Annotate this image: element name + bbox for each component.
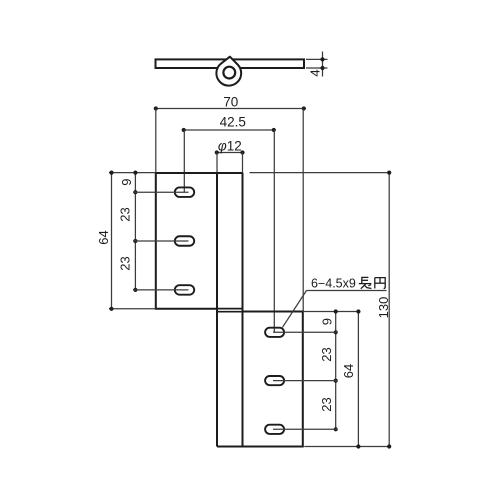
svg-text:23: 23	[319, 397, 334, 411]
right top extension line of lower leaf	[303, 311, 361, 313]
dimension 64 right: dimension line	[357, 312, 359, 447]
hinge barrel right edge	[242, 173, 244, 447]
top right extension line for 130	[250, 172, 392, 174]
slot leader lower 2	[273, 380, 338, 382]
svg-text:23: 23	[118, 207, 133, 221]
svg-text:23: 23	[319, 347, 334, 361]
upper slot 1	[175, 187, 194, 197]
lower slot 2	[265, 376, 284, 385]
slot leader lower 1	[273, 331, 338, 333]
svg-text:130: 130	[376, 297, 391, 319]
lower slot 1	[265, 328, 284, 337]
dimension 42.5: right extension into lower slot	[273, 130, 275, 332]
lower slot 3	[265, 425, 284, 434]
dimension 4: extension lines	[306, 58, 328, 60]
svg-text:70: 70	[223, 94, 238, 109]
svg-text:23: 23	[118, 256, 133, 270]
dimension phi12: dimension line	[217, 152, 243, 154]
dimension 4: dimension line	[322, 52, 324, 77]
svg-text:42.5: 42.5	[220, 115, 246, 130]
dimension 9/23/23 right: dimension line	[335, 312, 337, 430]
knuckle outer circle with pointed tip (teardrop)	[216, 57, 241, 86]
dimension 70: dimension line	[156, 108, 304, 110]
slot leader upper 2	[133, 240, 189, 242]
left top extension line	[109, 172, 156, 174]
upper leaf outline	[156, 173, 243, 309]
hinge barrel left edge	[216, 173, 218, 447]
svg-text:64: 64	[96, 230, 111, 244]
dimension 42.5: dimension line	[184, 129, 274, 131]
upper slot 3	[175, 285, 194, 295]
left bottom extension line	[109, 308, 156, 310]
lower leaf outline	[217, 312, 303, 447]
dimension 9/23/23 left: dimension line	[134, 173, 136, 290]
dimension 130: dimension line	[388, 173, 390, 447]
hole callout underline	[307, 290, 387, 292]
dimension 70: right extension line	[302, 109, 304, 312]
svg-text:4: 4	[307, 69, 322, 76]
hole callout label kanji "long"	[359, 277, 372, 289]
hole callout leader diagonal	[283, 291, 307, 328]
slot leader lower 3	[273, 428, 338, 430]
hole callout label kanji "circle"	[375, 278, 385, 289]
right bottom extension line	[304, 446, 391, 448]
svg-text:64: 64	[341, 364, 356, 378]
svg-text:φ12: φ12	[218, 139, 242, 154]
slot leader upper 3	[133, 289, 189, 291]
dimension 70: left extension line	[155, 109, 157, 173]
top view bar (hinge seen from above)	[156, 59, 305, 68]
svg-text:6−4.5x9: 6−4.5x9	[311, 277, 356, 291]
svg-text:9: 9	[119, 179, 134, 186]
dimension phi12: extension lines above barrel	[216, 153, 218, 174]
dimension 42.5: left extension into top slot	[183, 130, 185, 192]
leaf junction lines across barrel	[217, 308, 243, 310]
slot leader upper 1	[133, 191, 189, 193]
knuckle inner circle (pin hole)	[223, 67, 235, 79]
dimension 64 left: dimension line	[111, 173, 113, 309]
svg-text:9: 9	[320, 318, 335, 325]
upper slot 2	[175, 236, 194, 246]
